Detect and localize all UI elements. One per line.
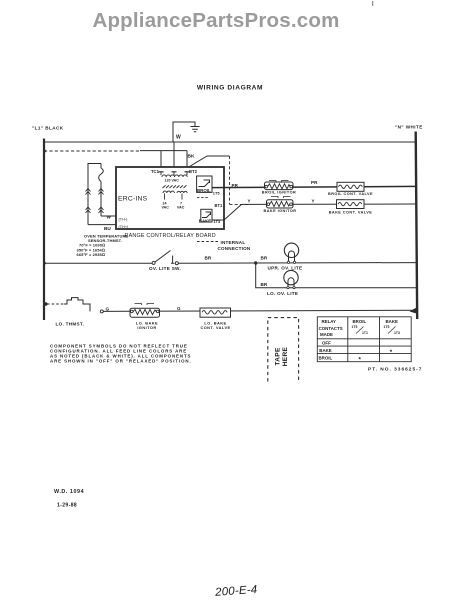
internal dashes [197,197,208,199]
wire BT2 riser diagonal [190,156,230,167]
svg-text:1T5: 1T5 [213,191,221,196]
wire sensor right leg [100,164,102,169]
relay contact table [317,317,411,362]
svg-text:1T5: 1T5 [384,325,390,329]
svg-text:BAKE: BAKE [199,218,212,223]
thermostat LO. THMST. [64,298,90,312]
svg-text:1T3: 1T3 [394,331,400,335]
contact codes [352,325,400,335]
svg-text:PR: PR [232,183,239,188]
svg-text:HERE: HERE [282,346,289,366]
wire Y line [242,203,417,205]
wire drop TC1 [160,151,162,167]
svg-text:BAKE IGNITOR: BAKE IGNITOR [264,209,297,213]
switch OV. LITE SW. [152,261,155,264]
svg-text:BROIL CONT. VALVE: BROIL CONT. VALVE [328,192,373,196]
svg-text:BAKE: BAKE [319,348,332,353]
wire top feed line [43,141,417,143]
svg-text:CONTACTS: CONTACTS [319,326,343,331]
svg-text:LO. OV. LITE: LO. OV. LITE [267,291,298,296]
svg-text:BAKE: BAKE [386,319,399,324]
svg-text:PT. NO. 336625-7: PT. NO. 336625-7 [368,367,422,373]
resistor BAKE IGNITOR [264,197,297,213]
lamp UPR. OV. LITE [284,243,298,263]
svg-text:(TH-): (TH-) [119,218,129,222]
svg-text:VAC: VAC [177,206,185,210]
svg-text:665°F = 2935Ω: 665°F = 2935Ω [77,252,106,257]
label TAPE HERE [275,346,289,366]
svg-text:INTERNAL: INTERNAL [221,240,246,245]
svg-text:OFF: OFF [322,341,331,346]
transformer T1 primary [162,175,187,177]
terminal bars [159,171,190,173]
wire BK solid feed [140,150,187,152]
wire PR line [212,186,417,187]
svg-text:BR: BR [261,282,268,287]
wire dashed lo thermostat feed [47,303,64,305]
contact [100,310,103,313]
junction [254,261,257,264]
resistor LO. BAKE CONT. VALVE [200,308,231,330]
svg-text:BU: BU [104,226,111,231]
wire drop BT2 [186,151,188,167]
svg-text:BAKE CONT. VALVE: BAKE CONT. VALVE [329,210,373,214]
svg-text:Y: Y [312,198,315,203]
svg-text:"L1" BLACK: "L1" BLACK [32,126,64,131]
ERC board outline [116,167,224,229]
svg-text:WIRING DIAGRAM: WIRING DIAGRAM [197,85,263,92]
svg-text:BROIL IGNITOR: BROIL IGNITOR [262,190,296,194]
svg-text:ARE SHOWN IN "OFF" OR "RELAXED: ARE SHOWN IN "OFF" OR "RELAXED" POSITION… [50,359,192,364]
svg-text:BROIL: BROIL [319,355,333,360]
svg-text:AppliancePartsPros.com: AppliancePartsPros.com [92,9,339,32]
svg-text:BROIL: BROIL [197,188,211,193]
wire N bus (right vertical) [416,132,418,320]
wire L1 bus (left vertical) [43,139,45,321]
wire dashed internal vertical [229,156,231,204]
svg-text:ERC-INS: ERC-INS [118,195,148,202]
sensor element squiggle [99,168,104,182]
svg-text:VAC: VAC [162,206,170,210]
relay K2 BAKE [201,209,212,222]
svg-text:BK: BK [188,154,195,160]
sensor note text [77,234,129,258]
svg-text:TAPE: TAPE [275,347,282,366]
svg-text:BT1: BT1 [215,203,223,208]
resistor BAKE CONT. VALVE [329,200,373,215]
svg-text:120 VAC: 120 VAC [165,179,180,183]
svg-text:UPR. OV. LITE: UPR. OV. LITE [268,266,303,271]
svg-text:Y: Y [248,198,251,203]
svg-text:CONT. VALVE: CONT. VALVE [200,325,230,330]
resistor BROIL IGNITOR [262,181,296,195]
svg-text:"N" WHITE: "N" WHITE [395,125,423,130]
svg-text:1T5: 1T5 [352,325,358,329]
svg-text:1T1: 1T1 [362,331,368,335]
wire ground tap [173,122,195,142]
wire bake relay output [212,204,242,220]
svg-text:BROIL: BROIL [353,319,367,324]
svg-text:G: G [177,306,181,311]
transformer secondary 1 [163,191,174,193]
relay K1 BROIL [197,176,212,192]
resistor LO. BAKE IGNITOR [130,304,160,331]
svg-text:LO. THMST.: LO. THMST. [56,321,85,326]
svg-text:IGNITOR: IGNITOR [137,325,156,330]
wire lo lite drop [256,263,416,288]
wire oven light row [44,262,152,264]
junction L1 BK [43,150,46,153]
svg-text:G: G [106,306,110,311]
svg-text:RELAY: RELAY [322,319,337,324]
wire lo bake row [103,310,416,311]
svg-text:TC1: TC1 [151,169,160,174]
svg-text:RANGE CONTROL/RELAY BOARD: RANGE CONTROL/RELAY BOARD [125,233,216,239]
registration tick [372,1,374,6]
svg-text:MADE: MADE [320,332,333,337]
svg-text:1-29-88: 1-29-88 [57,503,77,509]
oven temp sensor loop [88,164,116,225]
wire sensor bottom to board [88,224,116,226]
lamp LO. OV. LITE [284,270,298,288]
svg-text:W: W [107,215,112,220]
junction lo bake [44,302,48,306]
svg-text:W.D. 1094: W.D. 1094 [54,489,84,495]
wire BK dashed feed from L1 [44,150,140,152]
connector chevrons [86,189,104,214]
transformer core [163,185,187,188]
resistor BROIL CONT. VALVE [328,182,373,196]
svg-text:BR: BR [261,256,268,261]
transformer secondary 2 [177,191,187,193]
svg-text:BT2: BT2 [189,169,198,174]
wire to lamps [178,262,416,265]
wire drop center [173,142,175,167]
secondary leads [165,194,183,200]
svg-text:PR: PR [311,180,318,185]
junction L1 lite [43,262,46,265]
note component symbols [50,344,192,364]
ground [191,127,200,132]
legend internal connection [197,241,219,243]
wire sensor left leg [88,164,101,225]
svg-text:W: W [176,135,181,141]
svg-text:BR: BR [205,256,212,261]
junction wedge [410,308,417,314]
svg-text:OV. LITE SW.: OV. LITE SW. [149,266,181,271]
svg-text:CONNECTION: CONNECTION [218,246,251,251]
tape here box [268,318,299,382]
wire dashed internal horizontal [230,203,249,205]
